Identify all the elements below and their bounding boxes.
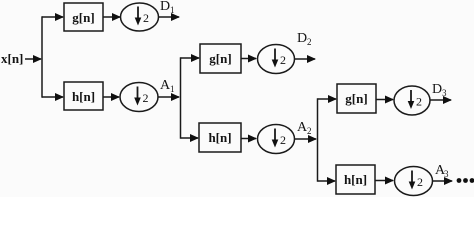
wire branch vertical stage 1 xyxy=(41,16,43,97)
wire x[n] to branch node xyxy=(25,58,41,60)
node D3 label xyxy=(432,82,447,98)
svg-text:h[n]: h[n] xyxy=(208,130,231,145)
filter g[n] stage 3 xyxy=(337,84,376,113)
downsampler circle 2 stage 1 top xyxy=(121,3,159,31)
wire to g[n] stage 2 xyxy=(181,57,200,59)
downsampler circle 2 stage 2 top xyxy=(258,45,295,74)
node A1 label xyxy=(160,78,175,94)
wire output D1 xyxy=(159,16,180,18)
downsampler circle 2 stage 3 bottom xyxy=(395,167,433,196)
downsampler circle 2 stage 3 top xyxy=(394,86,430,115)
wire to h[n] stage 1 xyxy=(42,96,63,98)
svg-text:2: 2 xyxy=(307,126,312,136)
filter h[n] stage 2 xyxy=(199,123,241,152)
wire g[n] to downsampler stage 3 xyxy=(376,99,393,101)
wire A1 to stage 2 branch xyxy=(158,96,179,98)
svg-text:2: 2 xyxy=(416,95,422,109)
svg-text:3: 3 xyxy=(444,169,449,179)
svg-text:2: 2 xyxy=(307,37,312,47)
filter h[n] stage 1 xyxy=(64,82,103,110)
wire g[n] to downsampler stage 2 xyxy=(241,58,256,60)
svg-text:2: 2 xyxy=(280,53,286,67)
wire h[n] to downsampler stage 2 xyxy=(241,138,256,140)
node A3 label xyxy=(435,163,449,179)
node A2 label xyxy=(297,120,312,136)
filter g[n] stage 2 xyxy=(200,44,241,73)
svg-text:2: 2 xyxy=(143,11,149,25)
filter h[n] stage 3 xyxy=(336,165,375,194)
svg-text:h[n]: h[n] xyxy=(72,89,95,104)
wire output A3 xyxy=(433,180,452,182)
input label x[n] xyxy=(1,51,23,66)
svg-text:1: 1 xyxy=(170,84,175,94)
wire branch vertical stage 2 xyxy=(180,57,182,138)
svg-text:g[n]: g[n] xyxy=(345,91,367,106)
wire output D2 xyxy=(295,58,315,60)
downsampler circle 2 stage 2 bottom xyxy=(258,125,295,154)
filter g[n] stage 1 xyxy=(64,3,103,31)
svg-text:D: D xyxy=(432,82,442,97)
wire to h[n] stage 3 xyxy=(318,180,336,182)
wire to g[n] stage 1 xyxy=(42,16,63,18)
svg-text:g[n]: g[n] xyxy=(209,51,231,66)
downsampler circle 2 stage 1 bottom xyxy=(120,83,158,112)
wire A2 to stage 3 branch xyxy=(295,138,317,140)
wire output D3 xyxy=(430,99,451,101)
svg-text:2: 2 xyxy=(280,133,286,147)
svg-text:3: 3 xyxy=(442,88,447,98)
ellipsis continuation dots xyxy=(457,178,474,183)
wire h[n] to downsampler stage 1 xyxy=(103,96,119,98)
wire to h[n] stage 2 xyxy=(181,137,199,139)
node D1 label xyxy=(160,0,175,15)
wire g[n] to downsampler stage 1 xyxy=(103,16,120,18)
svg-text:D: D xyxy=(160,0,170,14)
svg-text:1: 1 xyxy=(170,5,175,15)
wire h[n] to downsampler stage 3 xyxy=(375,180,393,182)
svg-text:2: 2 xyxy=(417,175,423,189)
svg-text:D: D xyxy=(297,31,307,46)
svg-text:2: 2 xyxy=(143,91,149,105)
svg-text:h[n]: h[n] xyxy=(344,172,367,187)
wire to g[n] stage 3 xyxy=(318,98,337,100)
svg-text:x[n]: x[n] xyxy=(1,51,23,66)
node D2 label xyxy=(297,31,312,47)
wire branch vertical stage 3 xyxy=(317,98,319,181)
svg-text:g[n]: g[n] xyxy=(72,10,94,25)
